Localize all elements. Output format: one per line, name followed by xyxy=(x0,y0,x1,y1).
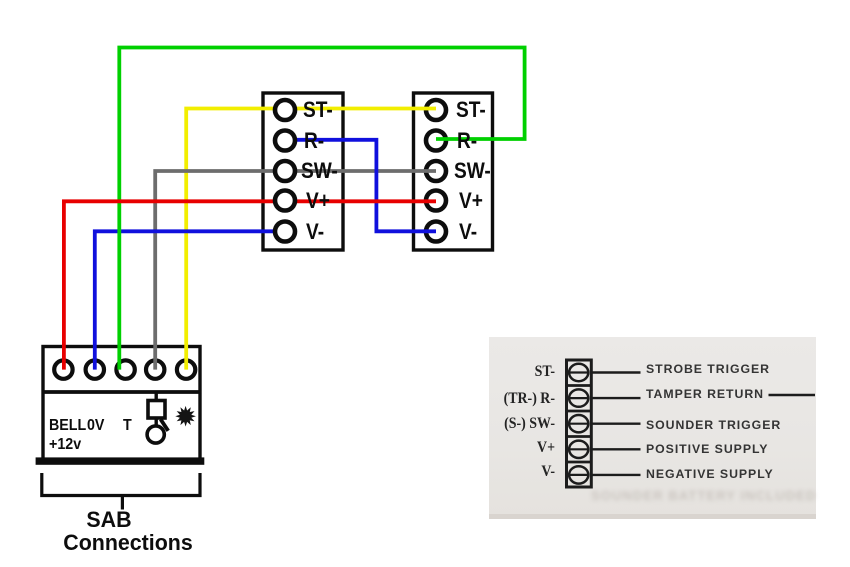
tamper switch circle xyxy=(147,426,164,443)
label L ST- xyxy=(303,99,333,122)
strip outline xyxy=(567,360,592,487)
label R SW- xyxy=(454,160,491,183)
legend right label STROBE TRIGGER xyxy=(646,363,770,375)
SAB text 0V xyxy=(87,418,104,434)
SAB terminal T xyxy=(146,360,164,378)
label R V+ xyxy=(459,190,483,213)
screw 5 xyxy=(569,466,588,483)
label R R- xyxy=(457,130,477,153)
wire green: SAB T(2) to right R- xyxy=(119,48,524,370)
terminal R ST- xyxy=(426,100,446,120)
label L SW- xyxy=(301,160,338,183)
legend left label V- xyxy=(468,464,555,480)
screw 3 xyxy=(569,415,588,432)
SAB text +12v xyxy=(49,437,81,453)
terminal R V+ xyxy=(426,191,446,211)
ghost text line xyxy=(591,488,821,503)
label L V- xyxy=(306,221,324,244)
terminal L V+ xyxy=(275,191,295,211)
SAB terminal BELL trigger xyxy=(116,360,134,378)
screw 2 xyxy=(569,389,588,406)
legend panel background xyxy=(489,337,816,519)
legend left label ST- xyxy=(468,364,555,380)
terminal block U2 (right) xyxy=(414,93,493,250)
legend bottom darker edge xyxy=(489,514,816,519)
left block terminal circles xyxy=(275,100,295,242)
legend left label V+ xyxy=(468,440,555,456)
terminal L SW- xyxy=(275,161,295,181)
terminal block U1 (left) xyxy=(263,93,343,250)
connector lines xyxy=(592,371,641,373)
SAB terminal strip divider xyxy=(42,390,202,394)
legend right label SOUNDER TRIGGER xyxy=(646,419,781,431)
legend right label POSITIVE SUPPLY xyxy=(646,443,768,455)
label R ST- xyxy=(456,99,486,122)
tamper switch square xyxy=(148,401,165,419)
SAB text T xyxy=(123,418,132,434)
SAB bottom thick bar xyxy=(36,457,205,464)
right block terminal circles xyxy=(426,100,446,242)
wire yellow: SAB BELL-5 to ST- xyxy=(186,109,436,370)
tamper stub to circle xyxy=(154,420,157,427)
SAB terminal ST xyxy=(177,360,195,378)
label R V- xyxy=(459,221,477,244)
wire red: SAB +12v to V+ xyxy=(64,201,436,369)
terminal L R- xyxy=(275,131,295,151)
terminal L ST- xyxy=(275,100,295,120)
caption Connections xyxy=(42,532,213,555)
SAB box xyxy=(43,347,200,460)
tamper lever diagonal xyxy=(161,419,169,431)
wire gray: SAB T to SW- xyxy=(155,171,436,370)
legend left label (TR-) R- xyxy=(468,391,555,407)
terminal R R- xyxy=(426,131,446,151)
terminal L V- xyxy=(275,222,295,242)
cell dividers xyxy=(566,384,592,387)
tamper switch stub xyxy=(154,392,157,400)
wire blue 1: SAB 0V to left V- xyxy=(95,231,285,369)
legend left label (S-) SW- xyxy=(468,416,555,432)
caption SAB xyxy=(52,509,166,532)
terminal R V- xyxy=(426,222,446,242)
label L V+ xyxy=(306,190,330,213)
SAB terminal 0V xyxy=(86,360,104,378)
SAB terminal +12v xyxy=(54,360,72,378)
SAB bracket xyxy=(42,473,200,510)
SAB text BELL xyxy=(49,418,86,434)
wire blue 2: left R- to right V- xyxy=(285,140,436,232)
screw 4 xyxy=(569,441,588,458)
SAB terminal circles xyxy=(54,360,195,378)
screw 1 xyxy=(569,364,588,381)
strobe starburst xyxy=(175,406,196,427)
legend terminal strip xyxy=(566,360,815,487)
label L R- xyxy=(304,130,324,153)
tamper return continuation line xyxy=(769,394,816,397)
terminal R SW- xyxy=(426,161,446,181)
legend right label NEGATIVE SUPPLY xyxy=(646,468,774,480)
legend right label TAMPER RETURN xyxy=(646,388,764,400)
